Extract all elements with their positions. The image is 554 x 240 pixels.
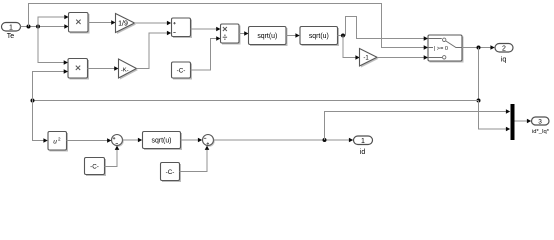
wire P2 to gain -K-: [88, 66, 119, 71]
node B (branch to P1 top input and P2): [36, 25, 40, 29]
wire long feedback across: [33, 100, 479, 102]
wire S2 to sqrt U3: [123, 138, 143, 143]
mux M1: [511, 104, 515, 140]
constant C1: [172, 62, 193, 80]
wire Te to product P1: [21, 24, 69, 29]
svg-text:-C-: -C-: [90, 163, 99, 170]
wire node B up to P1 top input: [38, 15, 69, 27]
wire P3 to sqrt U1: [239, 31, 249, 36]
wire switch to outport iq: [462, 45, 495, 50]
constant C3: [161, 163, 182, 183]
wire U3 to sum S3: [181, 138, 203, 143]
svg-text:-1: -1: [363, 56, 369, 62]
gain -K-: [119, 59, 139, 80]
svg-text:-K-: -K-: [121, 67, 129, 73]
constant C2: [85, 158, 107, 177]
svg-text:3: 3: [538, 119, 542, 126]
wire mux to outport 3: [515, 119, 532, 124]
node C (sqrt output junction): [341, 34, 345, 38]
svg-text:sqrt(u): sqrt(u): [309, 33, 329, 40]
svg-text:iq: iq: [501, 57, 507, 64]
wire U2 output to node C: [338, 35, 346, 37]
product P3 (divide): [221, 24, 241, 45]
sum S2 (round): [112, 135, 124, 147]
node E (feedback junction right): [477, 99, 481, 103]
wire C1 to P3 divide input: [191, 36, 221, 70]
wire gain -1 to switch bottom input: [377, 55, 428, 60]
gain 1/9: [116, 14, 137, 35]
node G (id branch): [323, 138, 327, 142]
svg-text:2: 2: [58, 137, 61, 142]
outport 1 id: [354, 136, 373, 156]
sum S3 (round): [203, 135, 215, 147]
sum S1: [172, 18, 193, 38]
svg-text:-C-: -C-: [177, 67, 186, 74]
math function sqrt U2: [300, 27, 339, 47]
node F (feedback junction left): [31, 99, 35, 103]
switch SW1: [428, 35, 464, 63]
svg-text:1: 1: [361, 138, 365, 145]
wire S3 to outport id: [214, 138, 354, 143]
wire node C down to gain -1: [343, 36, 360, 60]
svg-text:1: 1: [9, 24, 13, 31]
wire gain 1/9 to sum S1: [135, 21, 172, 26]
wire P1 to gain 1/9: [88, 20, 116, 25]
wire iq feedback down: [478, 48, 480, 101]
svg-text:u: u: [53, 139, 57, 146]
svg-text:| >= 0: | >= 0: [434, 46, 448, 52]
math function sqrt U1: [249, 27, 288, 47]
wire S1 to product P3: [191, 27, 221, 32]
node D (iq branch): [477, 46, 481, 50]
outport 2 iq: [495, 44, 513, 64]
wire C3 up to sum S3: [180, 146, 210, 172]
wire node F down to square block: [33, 101, 48, 143]
svg-text:-C-: -C-: [166, 169, 175, 176]
wire C2 up to sum S2: [105, 146, 120, 167]
gain -1: [360, 49, 379, 68]
wire square to sum S2: [67, 138, 112, 143]
product P1: [69, 13, 90, 34]
wire node E down to mux input 2: [479, 101, 511, 132]
wire gain -K- to sum S1 lower input: [137, 31, 172, 69]
svg-text:id: id: [360, 149, 366, 156]
wire top long feed to switch middle input: [29, 4, 429, 50]
math function sqrt U3: [143, 132, 183, 151]
svg-text:sqrt(u): sqrt(u): [152, 138, 172, 145]
product P2: [68, 59, 89, 80]
wire node C jog to switch top input: [346, 17, 429, 41]
svg-text:1/9: 1/9: [118, 20, 128, 27]
node A (branch to top feed wire): [27, 25, 31, 29]
svg-text:2: 2: [502, 45, 506, 52]
wire U1 to sqrt U2: [286, 33, 300, 38]
wire node F up to P2 lower input: [33, 69, 69, 100]
svg-text:sqrt(u): sqrt(u): [257, 33, 277, 40]
svg-text:Te: Te: [7, 33, 15, 40]
math function square u^2: [48, 132, 68, 152]
outport 3 id*_Iq*: [532, 117, 550, 135]
wire node B down to P2 top input: [38, 27, 68, 65]
svg-text:id*_Iq*: id*_Iq*: [532, 129, 550, 135]
wire node G up to mux input 1: [325, 109, 511, 140]
inport 1 Te: [2, 23, 21, 41]
